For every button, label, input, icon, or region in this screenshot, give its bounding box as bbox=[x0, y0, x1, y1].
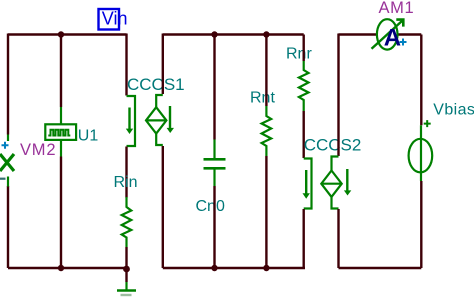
junction Cn0 bottom bbox=[211, 265, 217, 271]
wire: U1 branch lower bbox=[60, 157, 62, 269]
wire: Rin branch (below CCCS1 bracket) bbox=[125, 147, 127, 198]
wire: right loop top rail (left of ammeter) bbox=[339, 33, 378, 35]
voltage source Vbias bbox=[409, 120, 433, 181]
CCCS1 dependent source diamond bbox=[146, 95, 166, 145]
component U1 (digital signal box) bbox=[45, 107, 76, 157]
wire: Rnt branch upper bbox=[265, 35, 267, 107]
wire: U1 branch upper bbox=[60, 35, 62, 108]
svg-text:Vbias: Vbias bbox=[433, 102, 474, 119]
wire: Cn0 branch lower bbox=[213, 186, 215, 268]
junction at ground/bottom rail bbox=[123, 266, 130, 273]
junction Rnt bottom bbox=[263, 265, 269, 271]
wire: CCCS2 control lower / middle loop bottom-right corner bbox=[303, 209, 305, 268]
wire: right loop bottom rail bbox=[339, 267, 422, 269]
capacitor Cn0 bbox=[204, 140, 226, 187]
wire: Vbias branch upper (top-right corner) bbox=[420, 35, 422, 126]
junction Cn0 top bbox=[211, 31, 217, 37]
CCCS1 output current arrow bbox=[167, 106, 174, 133]
svg-text:Vin: Vin bbox=[102, 9, 128, 29]
wire: left vertical (VM2 branch upper) bbox=[7, 34, 9, 135]
svg-text:Rin: Rin bbox=[114, 174, 138, 191]
wire: left loop top rail bbox=[8, 33, 127, 35]
wire: CCCS1 source branch lower / middle loop left side bbox=[162, 146, 164, 268]
wire: Cn0 branch upper bbox=[213, 35, 215, 140]
svg-text:A: A bbox=[384, 25, 401, 52]
wire: Rnr to CCCS2 control bbox=[303, 111, 305, 158]
CCCS2 dependent source diamond bbox=[321, 157, 341, 209]
svg-text:Rnt: Rnt bbox=[250, 90, 275, 107]
wire: right loop top rail (right of ammeter) bbox=[398, 33, 422, 35]
resistor Rnt bbox=[262, 106, 272, 156]
wire: CCCS2 source branch lower bbox=[337, 209, 339, 268]
junction at U1/bottom rail bbox=[58, 265, 64, 271]
wire: middle loop top rail bbox=[163, 33, 304, 35]
node Vin label box bbox=[99, 9, 128, 30]
svg-text:Rnr: Rnr bbox=[286, 46, 312, 63]
wire: CCCS2 source branch upper bbox=[337, 34, 339, 157]
wire: left vertical (VM2 branch lower) bbox=[7, 186, 9, 268]
resistor Rnr bbox=[299, 61, 309, 111]
voltmeter VM2 (partially off-canvas at left edge) bbox=[0, 135, 14, 187]
wire: CCCS1 source branch upper stub bbox=[162, 34, 164, 95]
wire: CCCS1 control branch upper bbox=[125, 34, 127, 96]
CCCS1 control bracket with arrow bbox=[127, 96, 136, 146]
svg-text:Cn0: Cn0 bbox=[196, 198, 225, 215]
wire: middle loop bottom rail bbox=[163, 267, 305, 269]
ammeter AM1 bbox=[372, 19, 407, 51]
wire: left loop bottom rail bbox=[8, 267, 127, 269]
junction at U1/top rail bbox=[58, 31, 64, 37]
svg-text:CCCS2: CCCS2 bbox=[304, 136, 362, 155]
junction Rnt top bbox=[263, 31, 269, 37]
CCCS2 control bracket with arrow bbox=[304, 159, 312, 209]
svg-text:VM2: VM2 bbox=[20, 141, 56, 159]
svg-text:U1: U1 bbox=[78, 128, 99, 145]
CCCS2 output current arrow bbox=[344, 169, 351, 196]
ground bbox=[117, 269, 136, 295]
wire: Rnr branch upper (top-right corner of middle loop) bbox=[303, 35, 305, 62]
resistor Rin bbox=[122, 197, 132, 247]
wire: Rin to bottom rail bbox=[125, 247, 127, 268]
svg-text:AM1: AM1 bbox=[379, 0, 415, 17]
svg-text:CCCS1: CCCS1 bbox=[127, 75, 185, 94]
wire: Vbias branch lower bbox=[420, 181, 422, 268]
wire: Rnt branch lower bbox=[265, 156, 267, 268]
